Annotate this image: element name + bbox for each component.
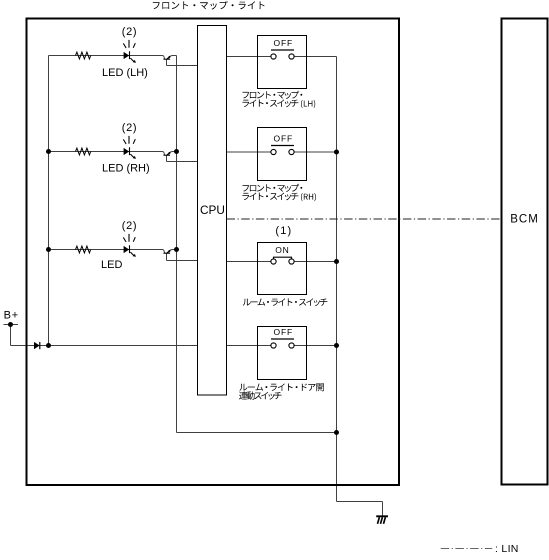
svg-text:OFF: OFF	[273, 327, 293, 337]
svg-text:OFF: OFF	[273, 133, 293, 143]
svg-text:B+: B+	[4, 310, 19, 322]
svg-text:(2): (2)	[122, 122, 138, 134]
svg-text:(1): (1)	[275, 225, 292, 237]
svg-text:(2): (2)	[122, 220, 138, 232]
svg-text:CPU: CPU	[200, 203, 225, 217]
svg-text:: LIN: : LIN	[495, 543, 519, 555]
svg-text:ON: ON	[275, 245, 289, 255]
svg-text:LED (RH): LED (RH)	[102, 163, 150, 175]
svg-text:OFF: OFF	[273, 38, 293, 48]
svg-text:(2): (2)	[122, 26, 138, 38]
svg-text:LED (LH): LED (LH)	[102, 67, 148, 79]
svg-text:LED: LED	[101, 259, 122, 271]
svg-text:BCM: BCM	[510, 214, 539, 226]
